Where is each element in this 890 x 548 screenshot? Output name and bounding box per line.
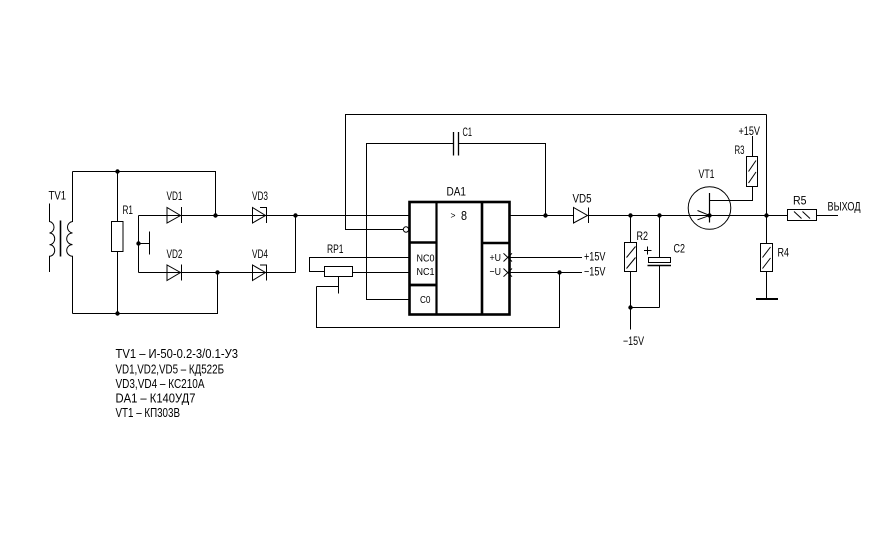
junction R1 top [115, 169, 119, 173]
svg-text:ВЫХОД: ВЫХОД [828, 202, 861, 214]
diode VD1 [167, 207, 182, 223]
wire: NC1 to RP1 right [353, 272, 410, 274]
svg-text:VT1: VT1 [699, 169, 715, 181]
svg-text:VD3,VD4 – КС210А: VD3,VD4 – КС210А [116, 377, 206, 391]
junction R2/C2 bottom [628, 305, 632, 309]
junction R1 bottom [115, 311, 119, 315]
zener VD3 [253, 208, 267, 224]
potentiometer RP1 [317, 267, 353, 294]
svg-text:+U: +U [490, 252, 502, 264]
resistor R1 [112, 172, 124, 314]
resistor R2 [625, 216, 637, 308]
junction rail to VD1 row [213, 213, 217, 217]
capacitor C1 [454, 132, 459, 156]
svg-text:RP1: RP1 [327, 244, 344, 256]
svg-text:VD2: VD2 [167, 249, 183, 261]
wire VD1 row [139, 215, 296, 217]
capacitor C2 [644, 216, 671, 308]
svg-text:−15V: −15V [623, 336, 644, 348]
op-amp DA1 [410, 202, 510, 315]
svg-text:−U: −U [490, 266, 502, 278]
resistor R3 [747, 136, 758, 187]
svg-text:R2: R2 [637, 231, 649, 243]
svg-text:R1: R1 [123, 205, 134, 217]
node: center-tap stub [136, 232, 149, 255]
resistor R4 [761, 216, 773, 272]
svg-text:R5: R5 [793, 196, 807, 208]
wire: C1 loop right [459, 144, 546, 216]
svg-text:TV1: TV1 [49, 191, 67, 203]
svg-text:DA1 – К140УД7: DA1 – К140УД7 [116, 392, 196, 406]
resistor R5 [767, 210, 839, 221]
junction output node [764, 213, 768, 217]
wire: feedback right leg [766, 115, 768, 216]
svg-text:VT1 – КП303В: VT1 – КП303В [116, 406, 181, 420]
diode VD2 [167, 265, 182, 281]
wire: top-left rail (secondary top to bridge) [73, 172, 216, 216]
wire: VT1 source to output node [710, 215, 767, 217]
junction rail to VD2 row [215, 270, 219, 274]
svg-text:C2: C2 [674, 244, 686, 256]
transistor VT1 [688, 187, 731, 230]
svg-text:NC0: NC0 [417, 253, 435, 265]
wire: RP1 wiper to -15V rail [317, 273, 560, 328]
junction wiper to -U wire [557, 270, 561, 274]
wire: bottom-left rail (secondary bottom to bridge) [73, 273, 218, 314]
svg-text:R4: R4 [778, 248, 790, 260]
svg-text:VD1,VD2,VD5 – КД522Б: VD1,VD2,VD5 – КД522Б [116, 363, 225, 377]
svg-text:DA1: DA1 [447, 187, 467, 199]
wire VD2 row [139, 272, 296, 274]
svg-text:>: > [451, 211, 456, 221]
svg-text:NC1: NC1 [417, 266, 435, 278]
svg-text:8: 8 [461, 209, 467, 223]
wire: main signal to DA1 input [296, 215, 410, 217]
pin cross -U [504, 269, 513, 277]
wire: VT1 drain to R3 [710, 187, 753, 201]
wire: bridge left vertical [138, 216, 140, 273]
svg-text:VD4: VD4 [252, 249, 268, 261]
ground [756, 272, 778, 300]
transformer TV1 [50, 172, 73, 314]
svg-text:VD5: VD5 [573, 194, 592, 206]
inversion circle on DA1 input [403, 227, 408, 232]
svg-text:+15V: +15V [584, 252, 606, 264]
junction C1 to output wire [543, 213, 547, 217]
wire: C1 loop left [367, 144, 454, 300]
svg-text:R3: R3 [735, 145, 745, 157]
svg-text:VD3: VD3 [252, 191, 268, 203]
junction R2 top [628, 213, 632, 217]
wire: NC0 to RP1 left [310, 258, 410, 272]
zener VD4 [253, 265, 267, 281]
wire -U supply [510, 272, 582, 274]
svg-text:C1: C1 [463, 127, 473, 139]
wire: bridge output riser [295, 216, 297, 273]
junction VT1 gate [707, 213, 711, 217]
svg-text:+15V: +15V [739, 126, 761, 138]
wire +U supply [510, 257, 582, 259]
wire: VD5 to VT1 gate [589, 215, 710, 217]
junction C2 top [657, 213, 661, 217]
svg-text:−15V: −15V [584, 267, 606, 279]
parts list [116, 347, 239, 420]
DA1 amplifier symbol [451, 209, 468, 223]
pin cross +U [504, 253, 513, 261]
svg-text:TV1 – И-50-0.2-3/0.1-У3: TV1 – И-50-0.2-3/0.1-У3 [116, 347, 239, 361]
diode VD5 [574, 208, 589, 224]
svg-text:C0: C0 [420, 294, 431, 306]
wire: R2/C2 bottom to -15V [631, 308, 660, 330]
wire: feedback from output node to inverting input [346, 115, 767, 230]
wire: DA1 output [510, 215, 574, 217]
junction bridge output [293, 213, 297, 217]
svg-text:VD1: VD1 [167, 191, 183, 203]
